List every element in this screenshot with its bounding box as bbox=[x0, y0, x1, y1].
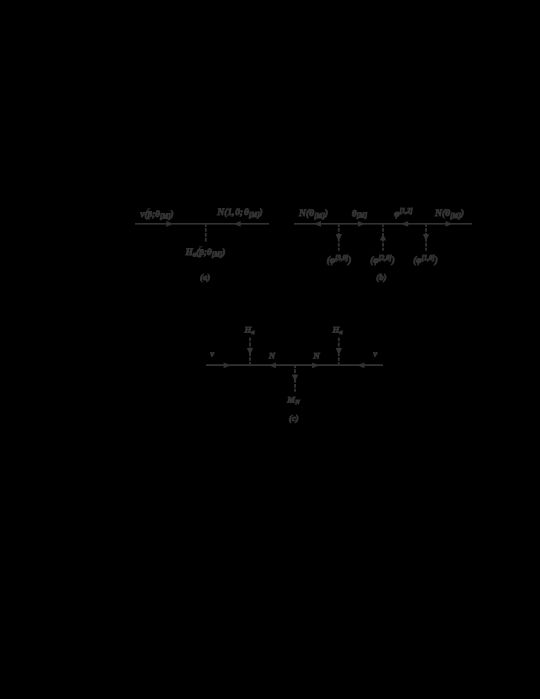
svg-text:ν: ν bbox=[373, 350, 377, 359]
diagram (c) arrow left seg2 bbox=[269, 363, 275, 368]
diagram (c) left Ha dashed line bbox=[249, 338, 251, 365]
svg-text:(c): (c) bbox=[289, 413, 299, 423]
diagram (c) arrow left seg4 bbox=[358, 363, 364, 368]
svg-text:θ[M]: θ[M] bbox=[352, 208, 368, 219]
diagram (c) center MN dashed line bbox=[294, 366, 296, 392]
svg-text:ν(p̄;θ[M]): ν(p̄;θ[M]) bbox=[140, 209, 173, 221]
svg-text:(a): (a) bbox=[200, 272, 210, 282]
svg-text:φ[1,2]: φ[1,2] bbox=[394, 208, 413, 218]
svg-text:(φ[2,0]): (φ[2,0]) bbox=[370, 255, 395, 265]
diagram (c) arrow right seg1 bbox=[224, 363, 230, 368]
diagram (b) dashed vev insertion 2 bbox=[382, 225, 384, 251]
diagram (a) p-bar overline in Ha label bbox=[199, 246, 202, 248]
diagram (b) arrow left seg1 bbox=[315, 221, 321, 226]
svg-text:Ha: Ha bbox=[331, 324, 343, 336]
diagram (c) arrow right seg3 bbox=[312, 363, 318, 368]
diagram (c) right Ha dashed line bbox=[338, 338, 340, 365]
svg-text:(φ[1,0]): (φ[1,0]) bbox=[413, 255, 438, 265]
diagram (c) MN down arrowhead bbox=[292, 375, 298, 381]
diagram (b) arrow right seg2 bbox=[358, 221, 364, 226]
diagram (b) vev1 down arrowhead bbox=[336, 234, 342, 240]
diagram (b) fermion line bbox=[294, 223, 472, 225]
svg-text:(b): (b) bbox=[376, 272, 386, 282]
diagram (a) fermion line bbox=[135, 223, 269, 225]
diagram (a) arrow left on N leg bbox=[234, 221, 240, 226]
svg-text:Ha: Ha bbox=[243, 324, 255, 336]
svg-text:N: N bbox=[268, 350, 276, 360]
svg-text:(φ[3,0]): (φ[3,0]) bbox=[327, 255, 352, 265]
diagram (c) right Ha down arrowhead bbox=[336, 348, 342, 354]
svg-text:N(θ[M]): N(θ[M]) bbox=[434, 208, 464, 220]
svg-text:N: N bbox=[312, 350, 320, 360]
diagram (b) vev2 up arrowhead bbox=[380, 234, 386, 240]
diagram (a) dashed scalar propagator bbox=[205, 225, 207, 243]
svg-text:N(1, 0; θ[M]): N(1, 0; θ[M]) bbox=[216, 207, 262, 219]
diagram (b) arrow left seg3 bbox=[402, 221, 408, 226]
diagram (a) p-bar overline in nu label bbox=[147, 208, 150, 210]
svg-text:Ha(p̄;θ[M]): Ha(p̄;θ[M]) bbox=[185, 247, 226, 259]
svg-text:N(θ[M]): N(θ[M]) bbox=[298, 208, 328, 220]
diagram (c) left Ha down arrowhead bbox=[247, 348, 253, 354]
svg-text:MN: MN bbox=[286, 395, 300, 407]
diagram (b) vev3 down arrowhead bbox=[423, 234, 429, 240]
diagram (c) fermion line bbox=[206, 364, 383, 366]
diagram (a) arrow right on neutrino leg bbox=[167, 221, 173, 226]
svg-text:ν: ν bbox=[210, 350, 214, 359]
diagram (b) dashed vev insertion 3 bbox=[425, 225, 427, 251]
diagram (b) dashed vev insertion 1 bbox=[338, 225, 340, 251]
diagram (b) arrow right seg4 bbox=[446, 221, 452, 226]
